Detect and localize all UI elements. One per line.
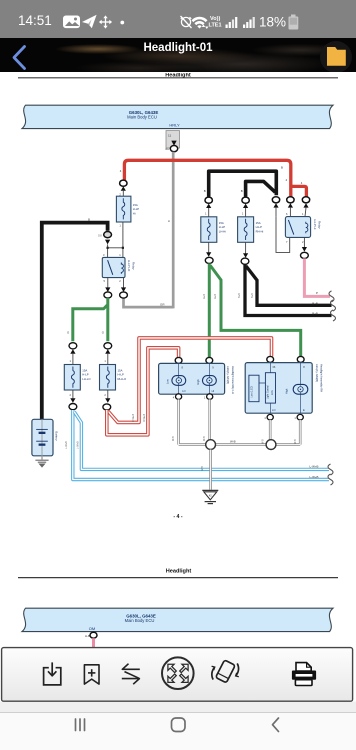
icon move tool [162, 657, 194, 689]
svg-text:B: B [241, 189, 243, 193]
arrow [121, 287, 126, 292]
LED module Low RH [249, 375, 259, 402]
recents [76, 719, 85, 731]
node circle above Hi fuse [120, 180, 127, 186]
svg-text:HI: HI [212, 389, 215, 393]
node D8 connector circle [98, 232, 112, 238]
fuse F4 H-LP RH-LO [100, 365, 128, 391]
gallery icon [63, 16, 80, 29]
arrow [70, 349, 75, 354]
wire c3 to relay pin7 [275, 208, 277, 217]
svg-text:H-LP LO: H-LP LO [127, 260, 131, 272]
icon download [44, 662, 61, 685]
svg-text:2: 2 [119, 279, 121, 283]
svg-text:LO: LO [272, 408, 275, 412]
fuse F5 H-LP RH-Hi [238, 217, 264, 243]
icon bookmark add [84, 665, 99, 684]
svg-text:B+B: B+B [238, 293, 241, 298]
arrow [206, 252, 211, 257]
svg-text:B+B: B+B [312, 301, 318, 305]
wire below Hi relay pin2 [303, 237, 305, 247]
wire green high pair [203, 263, 301, 357]
svg-text:L-W+B: L-W+B [65, 441, 68, 449]
node circle above fuse RH-LO [104, 343, 112, 349]
page1 header title (clipped) [165, 72, 191, 78]
svg-text:B: B [88, 217, 90, 221]
svg-text:- 4 -: - 4 - [173, 514, 182, 520]
wire break squiggles blue [328, 464, 333, 485]
move icon [101, 17, 111, 27]
svg-text:Light Control: Light Control [267, 385, 270, 399]
svg-text:G: G [67, 330, 70, 334]
node circle RH low pin [267, 356, 274, 362]
relay U2 H-LP Hi [285, 217, 321, 238]
wire red low RH (outlined) [108, 338, 272, 423]
svg-text:Relay: Relay [132, 262, 136, 270]
connector banner: Main Body ECU (page2) [22, 608, 333, 631]
wires below LO fuses [73, 390, 108, 398]
svg-text:LTE1: LTE1 [209, 23, 222, 29]
node circle below fuse RH-Hi [241, 258, 249, 264]
svg-text:LH-Hi: LH-Hi [219, 229, 227, 233]
wire to ground [201, 450, 210, 490]
svg-text:ECU: ECU [271, 390, 274, 395]
svg-text:1: 1 [119, 223, 121, 227]
svg-text:P: P [316, 291, 318, 295]
node c5 [302, 197, 309, 203]
battery icon [291, 15, 296, 18]
ground symbol [202, 490, 218, 503]
arrow [206, 204, 211, 208]
svg-text:3: 3 [103, 253, 105, 257]
nav bar [0, 712, 356, 750]
node OM pin label [89, 626, 95, 631]
wire gray relay-coil link [124, 298, 174, 307]
svg-text:E: E [303, 408, 305, 412]
svg-text:R-W+B: R-W+B [143, 414, 146, 422]
svg-text:Main Body ECU: Main Body ECU [125, 618, 155, 623]
back [273, 718, 279, 732]
svg-text:B: B [167, 220, 171, 222]
wire black B+B pair [238, 264, 332, 315]
arrow [273, 203, 278, 207]
node circle LH high out [204, 394, 213, 400]
node circle Hi relay out [301, 252, 309, 258]
wire battery positive (thick black) [42, 223, 108, 420]
svg-text:D8: D8 [98, 233, 102, 237]
svg-text:2: 2 [104, 393, 106, 397]
wire [122, 191, 124, 196]
svg-text:HRLY: HRLY [169, 123, 180, 128]
wire pink Hi relay out [304, 258, 330, 296]
lamp High RH [285, 384, 308, 394]
svg-text:W-B: W-B [172, 436, 175, 441]
svg-text:4: 4 [173, 396, 175, 399]
node splice blue circle [69, 404, 77, 410]
svg-text:11: 11 [168, 134, 171, 138]
svg-text:1: 1 [104, 359, 106, 363]
app bar [0, 38, 356, 72]
wires lamps internal LH [179, 363, 210, 394]
svg-text:W-B: W-B [294, 439, 297, 444]
svg-text:W-B: W-B [230, 440, 236, 444]
svg-text:1: 1 [204, 396, 206, 399]
node circle RH high pin [297, 356, 304, 362]
junction J2 [266, 440, 276, 450]
fuse F2 H-LP LH-Hi [201, 217, 227, 243]
svg-text:1: 1 [242, 212, 244, 216]
arrow [70, 398, 75, 403]
svg-text:Relay: Relay [318, 221, 322, 229]
page1 header rule [18, 77, 338, 79]
svg-text:14:51: 14:51 [18, 13, 52, 28]
node c4 [287, 197, 294, 203]
wires c4 c5 to relay [290, 208, 306, 217]
wires into LO fuses [73, 354, 108, 365]
svg-text:1: 1 [294, 417, 296, 420]
node splice red circle [103, 404, 111, 410]
svg-text:4: 4 [264, 417, 266, 420]
ground bus wires [179, 399, 301, 444]
link rects RH [259, 382, 265, 384]
node circle below fuse LH-Hi [205, 257, 213, 263]
svg-text:RH-LO: RH-LO [118, 377, 128, 381]
node circle LH high pin [206, 357, 213, 363]
svg-text:18%: 18% [259, 15, 286, 30]
relay U1 H-LP LO [102, 257, 135, 277]
svg-text:R-W+B: R-W+B [132, 414, 135, 422]
svg-text:W-B: W-B [203, 436, 206, 441]
connector banner: Main Body ECU (page1) [22, 105, 333, 128]
arrow into HRLY node [171, 141, 176, 146]
light control ECU RH [265, 373, 275, 403]
svg-text:G+B: G+B [203, 294, 206, 299]
folder icon [327, 47, 346, 66]
svg-text:Low: Low [165, 379, 169, 384]
svg-text:B+B: B+B [312, 311, 318, 315]
HRLY connector block [166, 131, 180, 148]
arrow [243, 204, 248, 208]
wire relay feed split [108, 222, 123, 257]
svg-text:Headlight Assembly LH: Headlight Assembly LH [231, 366, 235, 394]
svg-text:B: B [204, 189, 206, 193]
svg-text:4: 4 [120, 169, 122, 173]
svg-text:4: 4 [301, 181, 303, 185]
node circle above fuse LH-LO [69, 343, 77, 349]
svg-text:RH-Hi: RH-Hi [256, 229, 264, 233]
svg-text:1: 1 [205, 212, 207, 216]
signal bars 1 [226, 17, 238, 28]
fuse F3 H-LP LH-LO [64, 365, 91, 391]
arrow [243, 253, 248, 258]
svg-text:W-B: W-B [261, 439, 264, 444]
svg-text:1: 1 [70, 359, 72, 363]
wires below Hi fuses [209, 242, 246, 253]
svg-text:Headlight: Headlight [166, 568, 192, 574]
arrow [121, 186, 126, 190]
node circle LH low out [173, 394, 182, 400]
arrow [105, 398, 110, 403]
svg-text:4: 4 [286, 178, 288, 182]
wires below LO relay [108, 278, 124, 288]
junction J1 [206, 440, 216, 450]
alarm muted icon [181, 16, 192, 28]
wire blue low LH (outlined) [73, 410, 329, 480]
svg-text:High: High [285, 388, 289, 394]
svg-text:1: 1 [119, 253, 121, 257]
wire blue low RH (outlined) [65, 412, 329, 479]
svg-text:B+B: B+B [251, 293, 254, 298]
folder button ripple [320, 41, 352, 73]
wire HRLY gray vertical [167, 152, 173, 309]
page2 header title [166, 568, 192, 574]
svg-text:2: 2 [302, 240, 304, 244]
svg-text:Headlight Assembly RH: Headlight Assembly RH [320, 364, 324, 392]
svg-text:LH-LO: LH-LO [82, 377, 91, 381]
svg-text:L-W+B: L-W+B [77, 441, 80, 449]
svg-text:Vo)): Vo)) [210, 16, 220, 22]
wire green LO feed split [67, 298, 108, 341]
svg-text:1: 1 [302, 212, 304, 216]
wire black Hi B [246, 181, 276, 196]
svg-text:Hi: Hi [133, 211, 136, 215]
svg-text:G: G [102, 330, 105, 334]
node OM connector circle [85, 632, 97, 638]
svg-text:LO: LO [182, 389, 185, 393]
battery ground [35, 456, 48, 467]
svg-text:A30(A), A84(B): A30(A), A84(B) [226, 366, 230, 384]
arrow [105, 287, 110, 292]
svg-text:Battery: Battery [54, 431, 58, 441]
telegram icon [82, 15, 97, 29]
svg-text:B: B [281, 165, 283, 169]
node HRLY connector circle [165, 146, 178, 152]
document page [0, 73, 356, 647]
arrow [105, 349, 110, 354]
icon print [292, 663, 316, 686]
node c2 [242, 197, 249, 203]
toolbar [0, 640, 356, 712]
arrow [302, 247, 307, 252]
arrow [288, 203, 293, 207]
lamp Low LH [165, 376, 185, 393]
wire red low LH (outlined) [107, 348, 179, 435]
battery [32, 419, 59, 456]
svg-text:5: 5 [104, 279, 106, 283]
wires internal RH [271, 363, 301, 414]
svg-text:W-B: W-B [201, 466, 204, 471]
node circle RH low out [264, 414, 273, 420]
node circle LO relay out left [104, 292, 112, 298]
svg-text:H-B: H-B [85, 634, 90, 638]
arrow below D8 [105, 240, 110, 245]
fuse F1 H-LP Hi [116, 196, 139, 222]
icon rotate device [212, 660, 239, 683]
svg-text:7: 7 [286, 240, 288, 244]
svg-text:High: High [196, 379, 200, 385]
headlight assembly RH box [245, 363, 323, 414]
back chevron [14, 47, 25, 69]
node circle LH low pin [175, 357, 182, 363]
node c1 [205, 197, 212, 203]
svg-text:2: 2 [70, 393, 72, 397]
svg-text:H-LP Hi: H-LP Hi [313, 219, 317, 229]
home [172, 718, 186, 732]
svg-text:6: 6 [286, 212, 288, 216]
svg-text:Low (LED): Low (LED) [250, 386, 253, 398]
status bar [0, 0, 356, 38]
svg-text:A31(A), A83(B): A31(A), A83(B) [315, 364, 319, 382]
svg-text:G+B: G+B [214, 294, 217, 299]
node HRLY pin label [169, 123, 180, 128]
wire red main feed (top) [120, 160, 307, 197]
lamp High LH [196, 376, 216, 393]
signal bars 2 [243, 17, 255, 28]
wifi icon [192, 17, 209, 29]
node circle RH high out [294, 414, 303, 420]
headlight assembly LH box [159, 363, 235, 394]
node c3 [272, 197, 279, 203]
wire break squiggles right edge [329, 291, 336, 321]
page2 header rule [18, 577, 338, 579]
page number footer [173, 514, 182, 520]
arrow [303, 203, 308, 207]
wire black Hi A [209, 171, 277, 196]
icon swap [122, 664, 140, 684]
svg-text:Main Body ECU: Main Body ECU [127, 115, 157, 120]
svg-text:OM: OM [89, 626, 95, 631]
wires below c1 c2 [209, 208, 246, 217]
node circle LO relay out right [120, 292, 128, 298]
svg-text:L-W+B: L-W+B [310, 465, 319, 469]
svg-text:L-W+B: L-W+B [310, 475, 319, 479]
wire pink page2 [92, 638, 95, 647]
